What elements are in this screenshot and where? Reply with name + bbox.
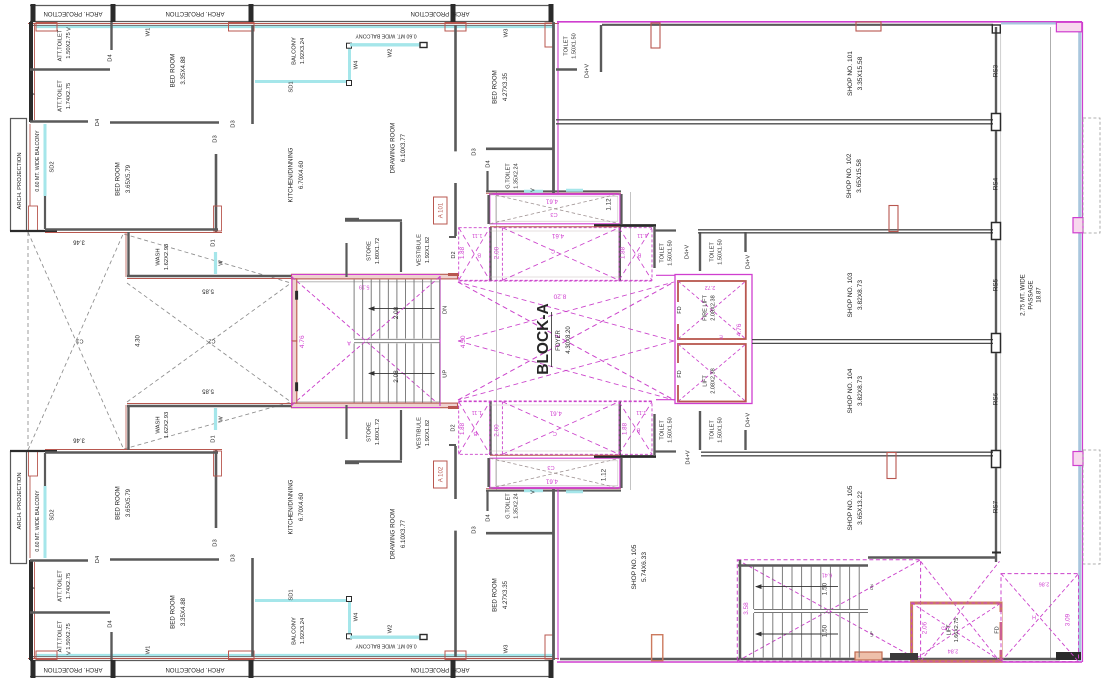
lobby row1 box <box>490 194 620 224</box>
svg-text:DN: DN <box>442 306 448 314</box>
svg-text:2.06: 2.06 <box>922 621 929 634</box>
svg-text:D2: D2 <box>450 424 456 431</box>
svg-text:1.62X2.93: 1.62X2.93 <box>164 244 170 270</box>
svg-text:BALCONY: BALCONY <box>291 617 297 645</box>
svg-text:SD1: SD1 <box>289 589 295 600</box>
svg-text:1.50: 1.50 <box>822 624 829 637</box>
svg-text:W: W <box>219 260 225 266</box>
svg-text:3.82X8.73: 3.82X8.73 <box>857 280 864 310</box>
balcony lower wall <box>44 196 46 229</box>
svg-text:1.88: 1.88 <box>459 246 466 259</box>
grid line B <box>630 192 632 490</box>
svg-text:1.11: 1.11 <box>637 232 647 238</box>
svg-text:BED ROOM: BED ROOM <box>169 54 176 88</box>
svg-text:0.60 MT. WIDE BALCONY: 0.60 MT. WIDE BALCONY <box>355 33 417 39</box>
svg-text:4.30: 4.30 <box>136 335 142 347</box>
wash walls <box>127 405 129 450</box>
svg-text:4.76: 4.76 <box>299 335 306 348</box>
lobby step walls <box>594 224 656 227</box>
svg-text:E: E <box>719 334 723 340</box>
svg-text:SD1: SD1 <box>289 81 295 92</box>
svg-text:1.74X2.75: 1.74X2.75 <box>66 83 72 109</box>
svg-text:0.60 MT. WIDE BALCONY: 0.60 MT. WIDE BALCONY <box>355 643 417 649</box>
red column shop103 <box>889 206 898 232</box>
svg-text:5.19: 5.19 <box>359 283 370 289</box>
g-toilet walls <box>486 148 553 151</box>
entrance step block <box>855 652 882 660</box>
svg-text:2.00: 2.00 <box>493 424 500 437</box>
svg-text:ATT.TOILET: ATT.TOILET <box>57 620 63 652</box>
grid line A <box>496 192 498 490</box>
svg-text:1.50X1.50: 1.50X1.50 <box>668 417 674 443</box>
svg-text:TOILET: TOILET <box>659 243 665 263</box>
svg-text:ARCH. PROJECTION: ARCH. PROJECTION <box>17 152 23 209</box>
stair diagonal <box>292 277 440 406</box>
svg-text:1.35X2.24: 1.35X2.24 <box>514 163 520 189</box>
svg-text:D4+V: D4+V <box>745 413 751 427</box>
svg-text:LIFT: LIFT <box>702 375 708 387</box>
svg-text:1.50: 1.50 <box>822 582 829 595</box>
store walls <box>345 219 402 221</box>
svg-text:3.46: 3.46 <box>73 436 85 442</box>
svg-text:V: V <box>30 586 36 590</box>
svg-text:ARCH. PROJECTION: ARCH. PROJECTION <box>410 10 469 16</box>
svg-text:STORE: STORE <box>366 241 372 261</box>
shop divider 104/105 <box>701 451 993 453</box>
shops top boundary <box>557 21 1082 23</box>
svg-text:2.84: 2.84 <box>948 648 959 654</box>
svg-text:6.10X3.77: 6.10X3.77 <box>400 133 407 162</box>
svg-text:C: C <box>553 430 557 436</box>
svg-text:STORE: STORE <box>366 422 372 442</box>
svg-text:SHOP NO. 105: SHOP NO. 105 <box>847 485 854 530</box>
svg-text:TOILET: TOILET <box>709 242 715 262</box>
svg-text:D3: D3 <box>213 539 219 546</box>
svg-text:BED ROOM: BED ROOM <box>114 162 121 196</box>
bedroom2 walls <box>215 450 218 528</box>
svg-text:V: V <box>66 27 72 31</box>
svg-text:4.61: 4.61 <box>549 409 562 416</box>
arch projection band <box>30 676 553 678</box>
svg-text:W4: W4 <box>354 60 360 69</box>
svg-text:SHOP NO. 101: SHOP NO. 101 <box>847 51 854 96</box>
svg-text:5.74X6.33: 5.74X6.33 <box>641 552 648 582</box>
svg-text:D4+V: D4+V <box>684 245 690 259</box>
svg-text:3.35X15.58: 3.35X15.58 <box>857 56 864 90</box>
shop divider 102/103 <box>698 229 993 231</box>
svg-text:RS5: RS5 <box>993 278 1000 291</box>
svg-text:3.35X4.88: 3.35X4.88 <box>180 597 187 626</box>
bedroom1 walls <box>110 558 219 561</box>
svg-text:TOILET: TOILET <box>563 36 569 56</box>
svg-text:6.10X3.77: 6.10X3.77 <box>400 519 407 548</box>
svg-text:G.TOILET: G.TOILET <box>505 163 511 189</box>
svg-text:D1: D1 <box>211 239 217 246</box>
svg-text:V: V <box>530 188 536 192</box>
svg-text:BED ROOM: BED ROOM <box>491 578 498 612</box>
svg-text:18.87: 18.87 <box>1036 287 1043 303</box>
svg-text:D4+V: D4+V <box>745 255 751 269</box>
svg-text:D3: D3 <box>472 148 478 155</box>
bottom boundary walls <box>560 658 1060 660</box>
svg-text:D4: D4 <box>95 118 101 126</box>
svg-text:1.50X2.75: 1.50X2.75 <box>66 32 72 58</box>
svg-text:6.70X4.60: 6.70X4.60 <box>298 160 305 189</box>
svg-text:1.80X1.72: 1.80X1.72 <box>375 419 381 445</box>
svg-text:W1: W1 <box>146 646 152 655</box>
svg-text:C3: C3 <box>550 211 557 217</box>
open area X left (C1) <box>28 232 124 450</box>
svg-text:V: V <box>30 92 36 96</box>
lift G box <box>912 603 1001 661</box>
svg-text:VESTIBULE: VESTIBULE <box>416 417 422 449</box>
fire lift + lift shaft <box>675 275 752 404</box>
red column shop101 <box>651 23 660 48</box>
lobby row2 box <box>459 228 652 281</box>
foyer X <box>458 282 674 400</box>
red column shop101 top wall <box>856 22 881 31</box>
svg-text:UP: UP <box>869 631 874 637</box>
svg-text:3.46: 3.46 <box>73 238 85 244</box>
A101 marker <box>434 197 448 224</box>
svg-text:SD2: SD2 <box>50 509 56 520</box>
svg-text:D3: D3 <box>213 135 219 142</box>
svg-text:1.92X3.24: 1.92X3.24 <box>300 617 306 644</box>
red columns band <box>36 23 57 32</box>
svg-text:1.11: 1.11 <box>636 409 646 415</box>
svg-text:SHOP NO. 105: SHOP NO. 105 <box>631 544 638 589</box>
svg-text:RS6: RS6 <box>993 392 1000 405</box>
red column shop105 <box>887 453 896 479</box>
svg-text:1.74X2.75: 1.74X2.75 <box>66 573 72 599</box>
svg-text:W4: W4 <box>354 612 360 621</box>
svg-text:3.58: 3.58 <box>743 602 750 615</box>
svg-text:DN: DN <box>869 584 874 590</box>
balcony lower wall <box>44 453 46 486</box>
svg-text:8.20: 8.20 <box>553 292 566 299</box>
svg-text:W2: W2 <box>388 625 394 634</box>
svg-text:4.30X8.20: 4.30X8.20 <box>566 326 572 354</box>
svg-text:KITCHEN/DINNING: KITCHEN/DINNING <box>287 147 294 202</box>
wash window W <box>214 252 217 274</box>
svg-text:1.12: 1.12 <box>606 198 613 211</box>
svg-text:ATT.TOILET: ATT.TOILET <box>57 29 63 61</box>
g-toilet window <box>524 489 543 492</box>
wash walls <box>127 232 129 277</box>
svg-text:TOILET: TOILET <box>659 420 665 440</box>
pink column low-right <box>1073 452 1083 466</box>
g-toilet walls <box>486 532 553 535</box>
shop divider 101/102 <box>556 119 993 121</box>
svg-text:6.41: 6.41 <box>822 572 833 578</box>
svg-text:W2: W2 <box>388 49 394 58</box>
passage blue line top <box>1001 22 1056 24</box>
balcony window SD2 <box>44 124 47 196</box>
svg-text:0.60 MT. WIDE BALCONY: 0.60 MT. WIDE BALCONY <box>35 490 41 552</box>
svg-text:1.50X1.50: 1.50X1.50 <box>668 240 674 266</box>
toilet pair walls <box>655 450 676 452</box>
svg-text:BED ROOM: BED ROOM <box>491 70 498 104</box>
svg-text:2.08: 2.08 <box>393 370 400 383</box>
svg-text:LIFT: LIFT <box>947 624 953 636</box>
svg-text:D4: D4 <box>95 555 101 563</box>
svg-text:BALCONY: BALCONY <box>291 37 297 65</box>
lift X <box>678 344 746 402</box>
svg-text:D3: D3 <box>231 120 237 127</box>
fire lift X <box>678 281 746 339</box>
svg-text:ARCH. PROJECTION: ARCH. PROJECTION <box>165 10 224 16</box>
window band W1 W3 <box>36 654 553 656</box>
svg-text:A: A <box>347 340 351 346</box>
svg-text:W3: W3 <box>504 29 510 38</box>
svg-text:ARCH. PROJECTION: ARCH. PROJECTION <box>43 10 102 16</box>
window W2 <box>350 636 420 639</box>
lobby window <box>566 189 583 192</box>
svg-text:D2: D2 <box>451 251 457 258</box>
open area X centre (C2) <box>127 283 291 402</box>
pink column top-right <box>1056 22 1081 32</box>
svg-text:2.75 MT. WIDE: 2.75 MT. WIDE <box>1020 274 1027 316</box>
svg-text:BED ROOM: BED ROOM <box>114 486 121 520</box>
red columns band <box>36 651 57 660</box>
svg-text:DRAWING ROOM: DRAWING ROOM <box>389 509 396 560</box>
svg-text:2.08X2.38: 2.08X2.38 <box>711 368 717 394</box>
band inner line <box>30 24 553 26</box>
svg-text:1.11: 1.11 <box>472 232 482 238</box>
staircase walls <box>292 274 458 279</box>
svg-text:DRAWING ROOM: DRAWING ROOM <box>389 123 396 174</box>
dashed future box top <box>1083 118 1100 233</box>
svg-text:2.00: 2.00 <box>493 246 500 259</box>
stair treads upper flight <box>353 280 355 339</box>
window W2 <box>350 43 420 46</box>
balcony window SD1 <box>255 80 349 83</box>
toilet pair walls <box>655 229 676 231</box>
stair arrow <box>369 372 435 374</box>
svg-text:G.TOILET: G.TOILET <box>505 493 511 519</box>
svg-text:VESTIBULE: VESTIBULE <box>416 234 422 266</box>
foyer centre dashes <box>459 280 652 282</box>
svg-text:1.50X1.50: 1.50X1.50 <box>718 239 724 265</box>
svg-text:6.70X4.60: 6.70X4.60 <box>298 492 305 521</box>
vestibule wall <box>454 446 457 499</box>
grid line passage <box>1050 27 1052 658</box>
svg-text:1.12: 1.12 <box>601 468 608 481</box>
wash window W <box>214 408 217 430</box>
arch projection left band <box>10 451 12 564</box>
svg-text:3.65X13.22: 3.65X13.22 <box>857 491 864 525</box>
foyer star diagonals <box>458 282 674 341</box>
window band W1 W3 <box>36 26 553 28</box>
svg-text:3.35X4.88: 3.35X4.88 <box>180 56 187 85</box>
svg-text:3.65X5.79: 3.65X5.79 <box>125 164 132 193</box>
svg-text:C: C <box>551 248 555 254</box>
svg-text:PASSAGE: PASSAGE <box>1028 280 1035 309</box>
svg-text:FD: FD <box>677 370 683 377</box>
svg-text:4.30: 4.30 <box>460 335 467 348</box>
shops right wall <box>995 27 997 113</box>
arch projection band <box>30 5 553 7</box>
stair inner thin lines <box>296 281 440 283</box>
dashed future box bottom <box>1083 450 1100 564</box>
svg-text:1.62X2.93: 1.62X2.93 <box>164 412 170 438</box>
svg-text:BED ROOM: BED ROOM <box>169 595 176 629</box>
staircase walls <box>292 403 458 408</box>
svg-text:UP: UP <box>442 370 448 378</box>
svg-text:4.27X3.35: 4.27X3.35 <box>502 580 509 609</box>
left outer wall <box>29 560 33 660</box>
svg-text:1.80X1.72: 1.80X1.72 <box>375 238 381 264</box>
svg-text:D4: D4 <box>486 514 492 522</box>
window W4 <box>348 47 351 84</box>
svg-text:ARCH. PROJECTION: ARCH. PROJECTION <box>165 666 224 672</box>
svg-text:D4: D4 <box>486 160 492 168</box>
bedroom1 walls <box>110 121 219 124</box>
shops wall inner thin line <box>1000 27 1002 551</box>
svg-text:W: W <box>219 416 225 422</box>
vestibule wall <box>454 183 457 236</box>
arch projection left band <box>10 118 12 231</box>
svg-text:A 102: A 102 <box>439 466 445 482</box>
svg-text:BLOCK-A: BLOCK-A <box>535 303 552 374</box>
svg-text:SHOP NO. 104: SHOP NO. 104 <box>847 368 854 413</box>
lobby row2 box <box>459 402 652 455</box>
svg-text:ATT.TOILET: ATT.TOILET <box>57 570 63 602</box>
svg-text:2.08: 2.08 <box>393 306 400 319</box>
svg-text:WASH: WASH <box>155 416 161 433</box>
balcony window SD2 <box>44 486 47 558</box>
passage blue wall right <box>1078 31 1081 661</box>
svg-text:1.88: 1.88 <box>621 422 628 435</box>
bedroom3 wall <box>454 531 457 657</box>
shop divider 103/104 <box>752 339 993 341</box>
svg-text:1.11: 1.11 <box>472 409 482 415</box>
svg-text:D3: D3 <box>231 554 237 561</box>
svg-text:5.85: 5.85 <box>202 387 214 393</box>
shop101 toilet walls <box>600 25 602 72</box>
lobby window <box>566 490 583 493</box>
bedroom2 walls <box>215 154 218 232</box>
svg-text:3.09: 3.09 <box>1065 613 1072 626</box>
svg-text:0.60 MT. WIDE BALCONY: 0.60 MT. WIDE BALCONY <box>35 130 41 192</box>
svg-text:A 101: A 101 <box>439 202 445 218</box>
stair treads upper flight <box>353 343 355 402</box>
svg-text:ATT.TOILET: ATT.TOILET <box>57 80 63 112</box>
shop105 bottom wall <box>868 556 996 558</box>
att toilet walls <box>30 68 110 70</box>
att toilet walls <box>30 611 110 613</box>
lower stair walls <box>739 560 742 658</box>
stair diagonal <box>292 277 440 406</box>
svg-text:1.88: 1.88 <box>459 422 466 435</box>
svg-text:H: H <box>1032 614 1036 620</box>
svg-text:V: V <box>66 651 72 655</box>
store walls <box>345 460 402 462</box>
svg-text:SHOP NO. 102: SHOP NO. 102 <box>846 153 853 198</box>
svg-text:WASH: WASH <box>155 248 161 265</box>
svg-text:ARCH. PROJECTION: ARCH. PROJECTION <box>410 666 469 672</box>
svg-text:1.35X2.24: 1.35X2.24 <box>514 493 520 519</box>
svg-text:RS4: RS4 <box>993 177 1000 190</box>
svg-text:2.72: 2.72 <box>705 284 716 290</box>
svg-text:TOILET: TOILET <box>709 420 715 440</box>
left outer wall <box>29 22 33 122</box>
svg-text:SHOP NO. 103: SHOP NO. 103 <box>847 272 854 317</box>
svg-text:B: B <box>477 252 481 258</box>
svg-text:4.76: 4.76 <box>736 323 743 336</box>
svg-text:B: B <box>473 430 477 436</box>
svg-text:W1: W1 <box>146 28 152 37</box>
balcony window SD1 <box>255 599 349 602</box>
svg-text:1.92X1.82: 1.92X1.82 <box>425 237 431 263</box>
svg-text:1.50X2.75: 1.50X2.75 <box>66 623 72 649</box>
svg-text:D4+V: D4+V <box>584 64 590 78</box>
stair arrow <box>369 308 435 310</box>
red accent line band <box>28 658 559 660</box>
svg-text:C: C <box>827 608 831 614</box>
band inner line <box>30 656 553 658</box>
bedroom3 wall <box>454 25 457 151</box>
salmon column bottom <box>652 635 663 661</box>
svg-text:D4: D4 <box>108 54 114 62</box>
residential-shop divider wall <box>552 22 555 193</box>
svg-text:D4+V: D4+V <box>685 450 691 464</box>
svg-text:D4: D4 <box>108 620 114 628</box>
svg-text:4.61: 4.61 <box>551 232 564 239</box>
lift G bottom wall <box>890 653 918 660</box>
svg-text:FD: FD <box>677 306 683 313</box>
svg-text:ARCH. PROJECTION: ARCH. PROJECTION <box>43 666 102 672</box>
svg-text:4.61: 4.61 <box>545 477 558 484</box>
svg-text:3.82X8.73: 3.82X8.73 <box>857 376 864 406</box>
svg-text:5.85: 5.85 <box>202 287 214 293</box>
A102 marker <box>434 461 448 488</box>
svg-text:RS3: RS3 <box>993 64 1000 77</box>
svg-text:FOYER: FOYER <box>556 330 562 351</box>
lower stair box <box>737 560 920 661</box>
svg-text:1.92X3.24: 1.92X3.24 <box>300 37 306 64</box>
svg-text:SD2: SD2 <box>50 161 56 172</box>
svg-text:1.66X2.75: 1.66X2.75 <box>954 618 960 643</box>
svg-text:KITCHEN/DINNING: KITCHEN/DINNING <box>287 479 294 534</box>
svg-text:RS7: RS7 <box>993 500 1000 513</box>
lower stair treads <box>753 567 755 610</box>
svg-text:1.88: 1.88 <box>619 246 626 259</box>
svg-text:2.86: 2.86 <box>1039 581 1050 587</box>
svg-text:FIRE LIFT: FIRE LIFT <box>702 295 708 321</box>
svg-text:4.27X3.35: 4.27X3.35 <box>502 72 509 101</box>
svg-text:4.61: 4.61 <box>545 197 558 204</box>
window W4 <box>348 598 351 635</box>
bottom-right X box (H) <box>1001 574 1079 662</box>
svg-text:2.08X2.38: 2.08X2.38 <box>711 295 717 321</box>
lift lobby X bottom <box>921 561 1000 661</box>
svg-text:B: B <box>636 427 640 433</box>
svg-text:D3: D3 <box>472 526 478 533</box>
svg-text:D1: D1 <box>211 435 217 442</box>
svg-text:V: V <box>530 490 536 494</box>
svg-text:C3: C3 <box>547 464 554 470</box>
svg-text:ARCH. PROJECTION: ARCH. PROJECTION <box>17 472 23 529</box>
svg-text:1.92X1.82: 1.92X1.82 <box>425 420 431 446</box>
svg-text:B: B <box>637 252 641 258</box>
lobby row1 box <box>490 458 620 488</box>
svg-text:C1: C1 <box>76 338 83 344</box>
svg-text:3.65X15.58: 3.65X15.58 <box>856 159 863 193</box>
svg-text:W3: W3 <box>504 645 510 654</box>
pink column mid-right <box>1073 218 1083 233</box>
g-toilet window <box>524 190 543 193</box>
